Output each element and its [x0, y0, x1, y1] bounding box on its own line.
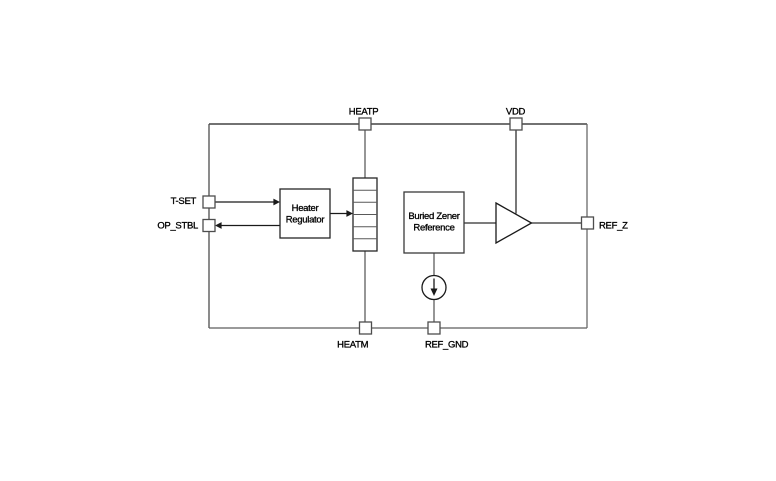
buried zener reference block — [404, 192, 464, 253]
svg-text:OP_STBL: OP_STBL — [157, 221, 198, 232]
pin VDD — [510, 118, 522, 130]
svg-text:Buried Zener: Buried Zener — [408, 211, 459, 222]
pin OP_STBL — [203, 220, 215, 232]
IC boundary outline — [209, 124, 587, 328]
svg-text:T-SET: T-SET — [171, 196, 197, 207]
output buffer amplifier — [496, 203, 532, 243]
current source I1 — [422, 276, 446, 300]
arrow heater regulator to heater element — [330, 210, 353, 217]
heater element (resistor) — [353, 178, 377, 251]
heater regulator block U1 — [280, 189, 330, 238]
pin HEATM — [360, 322, 372, 334]
svg-text:REF_Z: REF_Z — [599, 221, 628, 232]
arrow T-SET to heater regulator — [215, 199, 280, 206]
svg-text:Regulator: Regulator — [286, 215, 325, 226]
wire amplifier to REF_Z — [531, 222, 582, 224]
wire VDD to amplifier — [515, 130, 517, 214]
pin T-SET — [203, 196, 215, 208]
wire heater element to HEATM — [364, 251, 366, 322]
pin REF_Z — [582, 217, 594, 229]
svg-text:HEATM: HEATM — [337, 340, 368, 351]
svg-text:REF_GND: REF_GND — [425, 340, 469, 351]
pin HEATP — [359, 118, 371, 130]
wire buried zener to current source — [433, 253, 435, 276]
svg-text:VDD: VDD — [506, 107, 526, 118]
wire current source to REF_GND — [433, 300, 435, 323]
arrow heater regulator to OP_STBL — [215, 222, 280, 229]
wire buried zener to amplifier — [464, 222, 496, 224]
svg-text:Heater: Heater — [292, 203, 319, 214]
pin REF_GND — [428, 322, 440, 334]
svg-text:Reference: Reference — [413, 223, 454, 234]
wire HEATP to heater element — [364, 130, 366, 178]
svg-text:HEATP: HEATP — [349, 107, 378, 118]
